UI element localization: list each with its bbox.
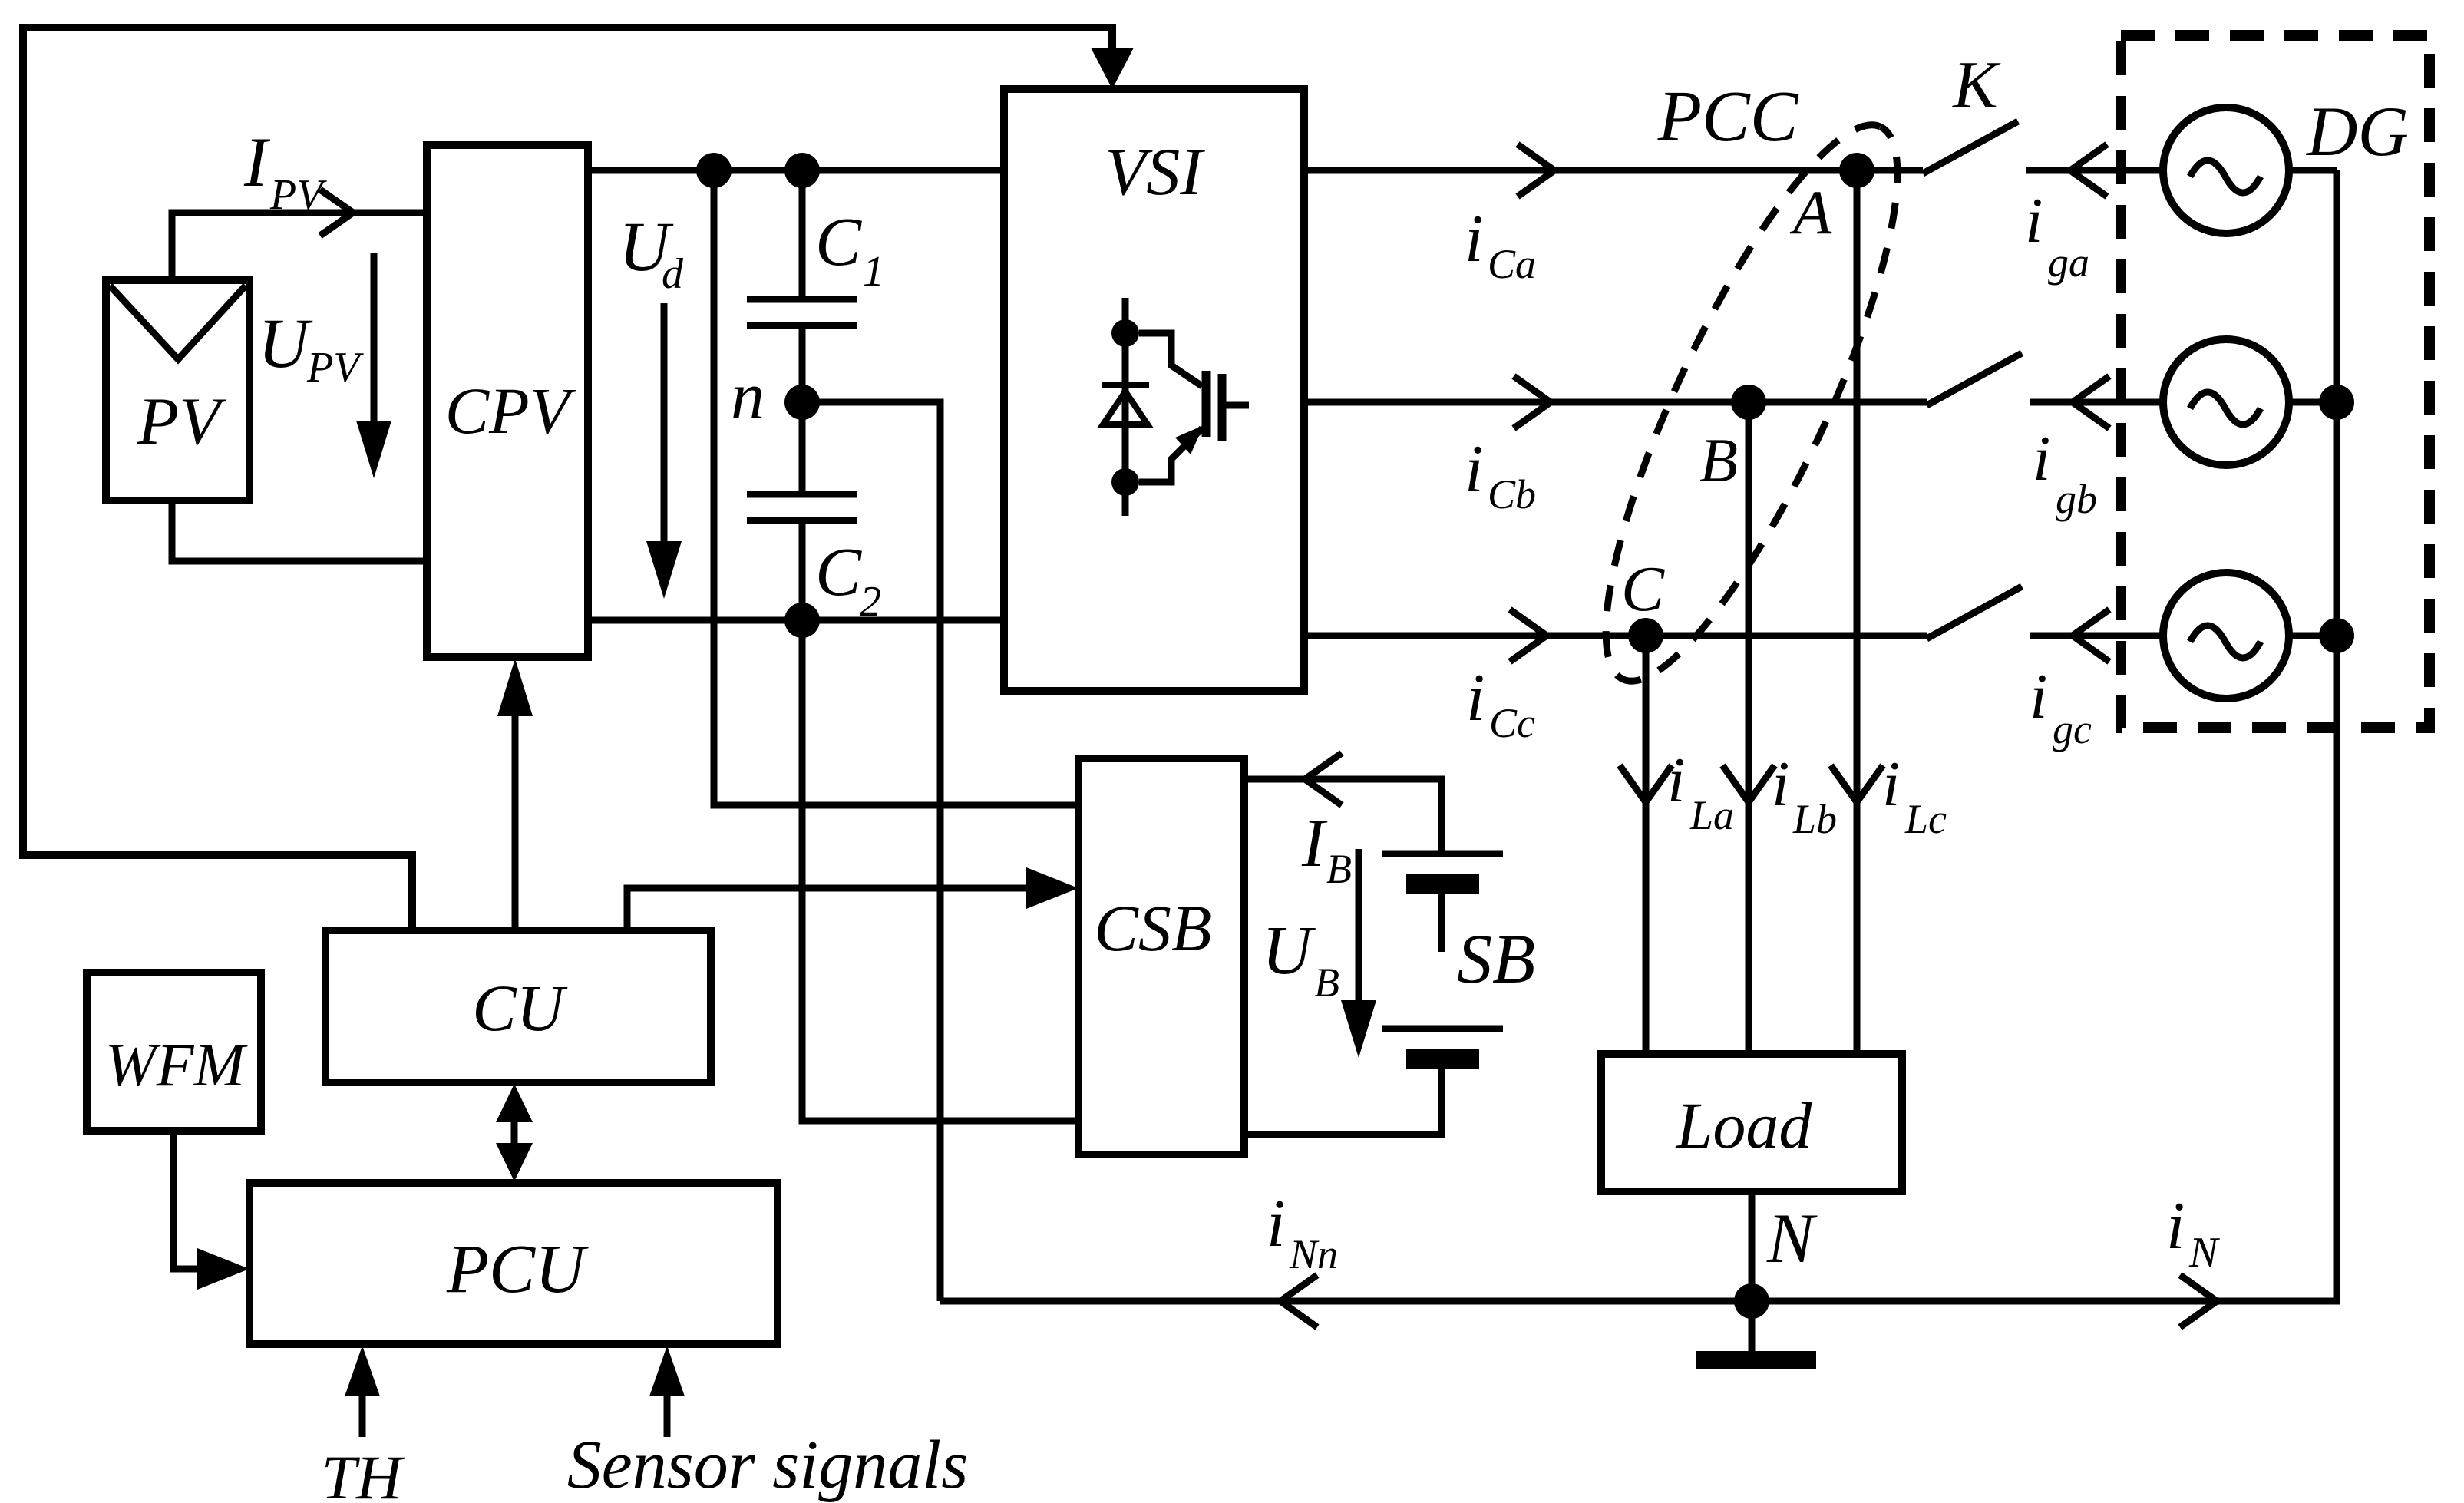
wire CSB to battery positive [1244,779,1442,851]
svg-text:CPV: CPV [445,374,576,448]
arrow i_gc [2073,609,2109,662]
arrow TH input to PCU [359,1383,366,1437]
wire a to DG source [2026,167,2165,174]
svg-text:i: i [2166,1189,2185,1264]
battery SB cell 2 [1382,1026,1503,1032]
arrow i_N [2180,1275,2217,1327]
svg-text:I: I [1301,805,1328,881]
capacitor C1 [799,187,806,296]
arrow i_Ca [1518,144,1554,197]
wire stub c [1663,633,1927,639]
junction dot rail-C1 [784,153,820,188]
IGBT gate bar [1218,374,1227,441]
wire PV bottom to CPV [172,500,427,561]
svg-text:WFM: WFM [105,1032,249,1099]
wire source a to bus [2289,167,2337,174]
svg-text:Cb: Cb [1488,471,1536,517]
wire PV top to CPV input [172,213,427,280]
arrowhead into VSI top [1091,48,1134,89]
battery SB cell 1 [1382,851,1503,857]
svg-text:Cc: Cc [1489,700,1535,746]
svg-text:La: La [1689,792,1734,838]
AC source DG-c [2163,573,2289,699]
svg-text:1: 1 [863,248,884,296]
wire battery negative to CSB [1244,1069,1442,1135]
node C dot [1628,618,1663,653]
wire phase a down to Load [1854,187,1861,1054]
junction dot bus-b [2319,385,2354,420]
grid bus and neutral return wire [940,170,2337,1301]
svg-text:Nn: Nn [1289,1231,1338,1277]
block PCU [249,1183,778,1344]
IGBT emitter arrow [1175,425,1204,454]
arrow i_Lc [1620,765,1672,802]
svg-text:n: n [731,359,765,434]
svg-text:i: i [1466,661,1485,735]
svg-text:N: N [1766,1199,1818,1277]
svg-text:Ca: Ca [1488,241,1536,287]
solar panel PV [106,280,249,500]
arrow U_d (DC link voltage) [661,303,668,547]
svg-text:Lb: Lb [1792,796,1837,842]
PCC dashed ellipse [1554,95,1948,711]
capacitor C2 [799,418,806,491]
diode triangle [1103,391,1148,424]
IGBT collector wire [1139,333,1202,386]
wire DC+ sense to CSB [714,187,1078,805]
wire outer feedback loop (left border, top border, down to VSI top) [23,28,1112,930]
svg-text:i: i [2025,185,2043,256]
wire stub b [1765,399,1927,406]
svg-text:I: I [243,123,271,201]
svg-text:Sensor signals: Sensor signals [567,1427,969,1503]
wire DC positive rail [588,167,1004,174]
node B dot [1731,385,1766,420]
wire DC- sense to CSB [802,636,1078,1121]
controller CSB [1078,758,1244,1155]
ground at N [1749,1301,1756,1352]
svg-text:i: i [1667,745,1685,816]
block Load [1601,1054,1902,1191]
diode (freewheeling): cathode bar [1102,382,1149,388]
double arrow CU to PCU [511,1105,518,1161]
svg-text:N: N [2188,1229,2220,1277]
arrow i_gb [2073,376,2109,428]
svg-text:C: C [815,534,862,610]
IGBT bottom node dot [1111,468,1139,496]
arrow i_La [1831,765,1883,802]
wire Load to node N [1749,1191,1756,1301]
IGBT leg inside VSI: vertical lead [1122,298,1129,516]
svg-text:i: i [1465,432,1483,507]
wire node n to neutral return [818,402,940,1301]
AC source DG-a [2163,107,2289,233]
block WFM [87,973,261,1131]
arrow Sensor signals input to PCU [664,1383,671,1437]
arrow i_Cb [1514,376,1551,428]
node n [784,385,820,420]
svg-text:PV: PV [137,385,227,459]
svg-text:2: 2 [860,578,881,626]
svg-text:C: C [1621,553,1665,625]
AC source DG-b [2163,339,2289,465]
svg-text:i: i [2033,423,2050,494]
svg-text:d: d [662,250,684,298]
converter CPV [427,145,588,657]
wire phase c: VSI to node C [1304,633,1631,639]
wire phase b: VSI to node B [1304,399,1734,406]
arrow i_Cc [1510,609,1547,662]
svg-text:PCU: PCU [446,1231,589,1307]
wire phase b down to Load [1746,419,1752,1054]
svg-text:U: U [258,304,313,382]
svg-text:B: B [1314,960,1339,1006]
IGBT gate stub [1226,402,1249,409]
wire source b to bus [2289,399,2337,406]
PV chevron mark [110,286,246,359]
svg-text:PV: PV [269,171,327,219]
wire b to DG source [2030,399,2163,406]
arrow U_B direction [1356,849,1362,1006]
svg-text:i: i [1267,1187,1285,1261]
svg-text:i: i [2030,661,2047,732]
wire WFM to PCU with arrow [173,1131,201,1269]
DG dashed box [2121,35,2429,728]
svg-text:i: i [1882,748,1900,820]
arrow U_PV (voltage direction) [371,253,378,427]
arrow I_PV direction [320,190,353,236]
switch K blade c [1927,586,2022,639]
inverter VSI [1004,89,1304,691]
svg-text:SB: SB [1457,920,1535,998]
svg-text:gc: gc [2053,706,2092,752]
svg-text:CU: CU [472,971,567,1045]
switch K blade a [1923,121,2018,173]
svg-text:Lc: Lc [1904,796,1947,842]
wire stub A [1874,167,1923,174]
battery inter-cell stub [1438,894,1445,952]
svg-text:CSB: CSB [1095,891,1212,965]
switch K blade b [1927,353,2022,405]
svg-text:K: K [1951,48,2001,123]
junction dot bus-c [2319,618,2354,653]
wire c to DG source [2030,633,2163,639]
junction dot rail-sense [696,153,732,188]
IGBT emitter wire [1139,428,1202,482]
wire DC negative rail [588,617,1004,624]
svg-text:gb: gb [2056,476,2097,522]
svg-text:C: C [815,204,862,280]
svg-text:PCC: PCC [1657,77,1799,157]
svg-text:B: B [1326,846,1352,892]
svg-text:U: U [1262,913,1316,989]
wire phase c down to Load [1643,652,1650,1054]
arrow CU to CPV [512,700,519,930]
junction dot rail-C2 [784,603,820,638]
arrow i_ga [2070,144,2107,197]
wire phase a: VSI to node A [1304,167,1842,174]
svg-text:TH: TH [322,1442,405,1503]
svg-text:B: B [1699,425,1738,495]
svg-text:DG: DG [2305,92,2409,170]
svg-text:i: i [1772,748,1789,820]
node A dot [1839,153,1874,188]
node N dot [1734,1283,1769,1319]
svg-text:PV: PV [306,344,364,391]
wire CU to CSB with arrow [627,888,1029,930]
svg-text:ga: ga [2048,239,2089,286]
wire source c to bus [2289,633,2337,639]
arrow i_Lb [1722,765,1775,802]
arrow i_Nn [1280,1275,1317,1327]
IGBT channel bar [1202,371,1211,437]
controller CU [325,930,711,1082]
svg-text:VSI: VSI [1105,135,1205,210]
svg-text:Load: Load [1675,1088,1813,1162]
svg-text:i: i [1465,202,1483,276]
IGBT top node dot [1111,319,1139,347]
arrow I_B direction on wire [1305,753,1342,805]
